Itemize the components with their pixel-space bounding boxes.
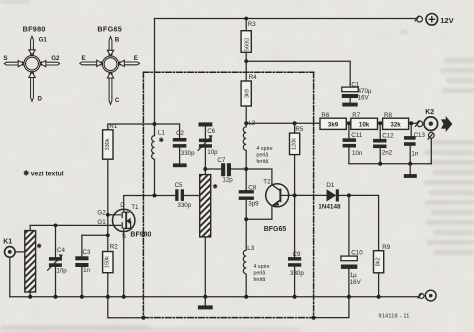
wire below L1 to drain rail: [154, 159, 156, 195]
svg-text:1N4148: 1N4148: [318, 203, 341, 210]
svg-text:330p: 330p: [290, 270, 304, 277]
wire C10 stems: [348, 195, 350, 296]
node C13 bottom: [408, 162, 412, 166]
node emitter/C8/L3: [244, 217, 248, 221]
terminal ground output: [418, 290, 436, 301]
ground bar under resonator rail: [198, 297, 213, 310]
svg-text:R7: R7: [352, 112, 360, 119]
node rail: T1 source: [122, 295, 126, 299]
svg-text:560Ω: 560Ω: [245, 38, 251, 51]
node shield corner left: [141, 316, 145, 320]
wire C7 to node A: [231, 168, 246, 170]
resistor R4 3k9: [241, 81, 251, 106]
svg-text:L1: L1: [158, 129, 165, 136]
pinout diagram BF980: [4, 36, 59, 101]
wire R1 feed: [108, 124, 155, 130]
wire R3 top lead: [245, 19, 247, 31]
capacitor C9 330p: [288, 257, 301, 267]
svg-text:B: B: [115, 37, 120, 44]
wire C11 stems: [348, 123, 350, 164]
svg-text:1µ: 1µ: [350, 272, 357, 279]
wire C8 stems: [245, 169, 247, 219]
svg-text:R1: R1: [109, 123, 117, 130]
ground bar under C2: [173, 163, 187, 167]
svg-text:✱: ✱: [213, 183, 218, 190]
svg-text:D: D: [38, 96, 43, 103]
node R3 top: [244, 17, 248, 21]
svg-text:K1: K1: [3, 239, 12, 246]
svg-text:T2: T2: [263, 178, 271, 185]
node shield corner right: [312, 316, 316, 320]
resistor R6 3k9: [320, 118, 346, 129]
svg-text:10n: 10n: [352, 150, 363, 157]
resistor R8 32k: [383, 118, 409, 129]
svg-text:C: C: [115, 97, 120, 104]
svg-text:R3: R3: [248, 21, 256, 28]
svg-text:S: S: [3, 55, 7, 62]
shield box (dash-dot screening enclosure): [143, 72, 313, 317]
wire G2 stub: [108, 214, 114, 216]
wire C3 elbow to G2 line: [82, 234, 108, 236]
label pinout BFG65 pins: [82, 37, 138, 105]
svg-text:D1: D1: [326, 182, 334, 189]
svg-text:E: E: [134, 55, 138, 62]
svg-text:150k: 150k: [104, 256, 110, 268]
node rail: C4: [54, 295, 58, 299]
capacitor C7 12p: [221, 163, 231, 176]
node C12 tap: [378, 121, 382, 125]
svg-text:BFG65: BFG65: [97, 25, 122, 34]
node C13 tap: [409, 121, 413, 125]
node C11 tap: [347, 121, 351, 125]
svg-text:C9: C9: [293, 251, 301, 258]
svg-text:914118 - 11: 914118 - 11: [378, 313, 409, 319]
svg-text:C3: C3: [83, 249, 91, 256]
capacitor C12 2n2: [373, 139, 386, 148]
resistor R5 120k: [290, 133, 300, 155]
wire R6-R7 link: [346, 122, 351, 124]
svg-text:C2: C2: [176, 130, 184, 137]
wire ground stub under C13: [409, 164, 411, 174]
wire R2 bottom: [107, 273, 109, 297]
wire R9 bottom: [378, 273, 380, 297]
svg-text:3p9: 3p9: [248, 201, 259, 208]
svg-text:1n: 1n: [411, 151, 418, 158]
svg-text:330k: 330k: [105, 138, 111, 150]
svg-text:✱ vezi textul: ✱ vezi textul: [23, 169, 64, 177]
transistor T1 BF980 dual-gate MOSFET: [113, 209, 135, 231]
node C12 bottom: [378, 162, 382, 166]
shield-to-ground wire right: [314, 297, 349, 318]
node rail: L3: [244, 295, 248, 299]
wire C2 elbow: [155, 124, 180, 138]
svg-text:ferită: ferită: [253, 277, 265, 283]
wire emitter down and left: [246, 206, 272, 219]
wire T2 base to D1: [289, 194, 327, 196]
capacitor C3 1n: [75, 256, 88, 267]
capacitor C1 470µ 16V electrolytic: [342, 87, 358, 106]
value C10: [350, 272, 362, 286]
capacitor C4 10p trimmer: [47, 254, 63, 270]
svg-text:ferită: ferită: [256, 159, 268, 165]
svg-text:BF980: BF980: [23, 25, 46, 34]
svg-text:R9: R9: [382, 244, 390, 251]
node R5 top: [293, 121, 297, 125]
diode D1 1N4148: [327, 189, 339, 201]
node rail: R2/shield: [106, 295, 110, 299]
node R4/L2 bus: [244, 121, 248, 125]
wire C6 stem upper: [204, 127, 206, 139]
resistor R2 150k: [103, 252, 113, 273]
wire K1 ground drop: [9, 257, 11, 297]
svg-text:G2: G2: [97, 209, 106, 216]
svg-text:BFG65: BFG65: [264, 226, 287, 233]
svg-text:D: D: [120, 202, 125, 209]
stripline resonator input (vezi textul): [25, 231, 36, 292]
node base/R5/C9/D1: [293, 193, 297, 197]
node A (L2/C7/C8/collector): [244, 167, 248, 171]
resistor R1 330k: [103, 130, 113, 159]
svg-text:2n2: 2n2: [382, 150, 393, 157]
svg-text:C5: C5: [175, 182, 183, 189]
svg-text:1n: 1n: [83, 267, 90, 274]
svg-text:T1: T1: [131, 204, 139, 211]
svg-text:perlă: perlă: [256, 152, 268, 158]
node rail: C3: [80, 295, 84, 299]
wire C6 stem lower: [204, 148, 206, 169]
wire +12V top rail: [155, 18, 417, 20]
node C4 tap: [54, 224, 58, 228]
wire C13 stems: [410, 123, 411, 164]
svg-text:R5: R5: [295, 126, 303, 133]
terminal +12V: [415, 13, 438, 25]
svg-text:C13: C13: [414, 132, 426, 139]
svg-text:L2: L2: [248, 120, 255, 127]
wire input node to G1: [30, 225, 113, 230]
node rail: R9: [377, 295, 381, 299]
node G2: [106, 213, 110, 217]
capacitor C8 3p9: [239, 190, 254, 200]
capacitor C5 330p: [175, 189, 184, 201]
wire node A to collector: [246, 169, 272, 185]
svg-text:C11: C11: [351, 132, 362, 139]
svg-text:S: S: [122, 233, 126, 240]
node drain/L1: [153, 194, 157, 198]
svg-text:C4: C4: [57, 247, 65, 254]
svg-text:BF980: BF980: [130, 231, 151, 238]
wire T1 source down: [123, 232, 125, 297]
wire node to C7: [205, 168, 221, 170]
wire ground rail: [10, 296, 419, 298]
connector K2 output jack: [415, 117, 438, 140]
wire drain rail to C5: [124, 195, 176, 197]
node rail: C10/shield: [347, 295, 351, 299]
node rail: resonator: [203, 295, 207, 299]
inductor L3: [243, 250, 246, 274]
svg-text:R8: R8: [384, 112, 392, 119]
svg-text:✱: ✱: [37, 243, 42, 250]
wire C9 stems: [294, 195, 296, 296]
svg-text:R4: R4: [249, 74, 257, 81]
svg-text:E: E: [82, 55, 86, 62]
capacitor C6 10p trimmer: [198, 135, 213, 151]
svg-text:10k: 10k: [359, 121, 370, 128]
connector K1 input jack: [5, 247, 16, 258]
node R3/R4/C1: [244, 59, 248, 63]
svg-text:3k9: 3k9: [245, 89, 251, 98]
svg-text:R6: R6: [321, 112, 329, 119]
ground bar under C13 bus: [404, 174, 417, 178]
wire T1 drain up: [123, 196, 125, 210]
wire R3 bottom to node: [245, 52, 247, 61]
wire R1 to G2 and R2: [107, 159, 109, 251]
note L3 windings: [253, 264, 269, 283]
node D1/C10/R9: [347, 193, 351, 197]
ground bar above C6: [199, 122, 213, 126]
wire C2 bottom to ground bar: [179, 148, 181, 164]
wire C3 stems: [81, 235, 83, 296]
wire C12 stems: [379, 123, 381, 164]
svg-text:perlă: perlă: [253, 270, 265, 276]
svg-text:10p: 10p: [56, 267, 67, 274]
svg-text:C6: C6: [207, 128, 215, 135]
wire bias bus to R6: [246, 122, 320, 124]
wire R4 leads: [245, 61, 247, 123]
svg-text:C12: C12: [382, 132, 394, 139]
inductor L2: [243, 127, 246, 153]
svg-text:12p: 12p: [222, 176, 233, 183]
wire resonator bottom stub: [204, 237, 206, 297]
svg-text:G1: G1: [97, 219, 106, 226]
svg-text:4 spire: 4 spire: [256, 146, 272, 152]
svg-text:12V: 12V: [440, 16, 454, 25]
svg-text:G1: G1: [39, 36, 48, 43]
resistor R7 10k: [351, 118, 378, 129]
wire K1 to input coil: [15, 251, 27, 253]
value C1: [358, 88, 372, 102]
svg-text:C8: C8: [248, 184, 256, 191]
svg-text:330p: 330p: [181, 150, 195, 157]
svg-text:3k9: 3k9: [328, 121, 339, 128]
svg-text:4 spire: 4 spire: [253, 264, 269, 270]
capacitor C13 1n: [404, 136, 416, 146]
svg-text:16V: 16V: [358, 95, 370, 102]
svg-text:8k2: 8k2: [375, 257, 381, 266]
svg-text:C10: C10: [351, 249, 363, 256]
capacitor C2 330p: [173, 138, 187, 148]
arrow output direction: [441, 116, 452, 132]
wire L2 leads: [245, 123, 247, 169]
svg-text:✱: ✱: [159, 137, 164, 144]
wire R7-R8 link: [378, 122, 383, 124]
capacitor C10 1µ 16V electrolytic: [341, 256, 357, 269]
wire R8 to K2: [409, 122, 417, 124]
svg-text:C7: C7: [217, 157, 225, 164]
transistor T2 BFG65: [266, 184, 289, 207]
node K1 tap on stripline: [27, 250, 31, 254]
node L1/C2/R1 junction: [153, 122, 157, 126]
wire K2 shield drop: [430, 138, 432, 164]
wire filter ground bus: [349, 163, 431, 165]
wire L3 leads: [245, 219, 247, 296]
svg-text:120k: 120k: [292, 138, 298, 150]
inductor L1: [152, 136, 155, 160]
node C6/C7/resonator: [203, 167, 207, 171]
wire C4 stems: [55, 225, 57, 296]
node C3/R2 bias junction: [106, 233, 110, 237]
svg-text:R2: R2: [110, 243, 118, 250]
shield-to-ground wire left: [108, 297, 144, 318]
label pinout BF980 pins: [3, 36, 60, 102]
capacitor C11 10n: [343, 138, 356, 147]
svg-text:16V: 16V: [350, 279, 362, 286]
wire D1 cathode to node: [339, 194, 349, 196]
resistor R9 8k2: [374, 251, 384, 273]
wire node to R9: [349, 195, 379, 250]
svg-text:32k: 32k: [390, 121, 401, 128]
svg-text:330p: 330p: [177, 202, 191, 209]
stripline resonator interstage (vezi textul): [200, 175, 211, 237]
wire left supply branch: [154, 19, 156, 136]
wire input coil bottom stub: [29, 292, 31, 297]
svg-text:G2: G2: [51, 55, 60, 62]
wire C5 to resonator: [184, 195, 200, 197]
wire resonator top stub: [204, 169, 206, 175]
svg-text:10p: 10p: [207, 149, 218, 156]
svg-text:K2: K2: [425, 109, 434, 116]
resistor R3 560Ω: [241, 31, 251, 53]
note L2 windings: [256, 146, 272, 165]
node rail: C9: [293, 295, 297, 299]
svg-text:L3: L3: [247, 245, 254, 252]
wire supply node to C1: [246, 61, 350, 87]
wire R5 leads: [294, 123, 296, 195]
pinout diagram BFG65: [80, 37, 140, 105]
node rail: input coil: [28, 295, 32, 299]
